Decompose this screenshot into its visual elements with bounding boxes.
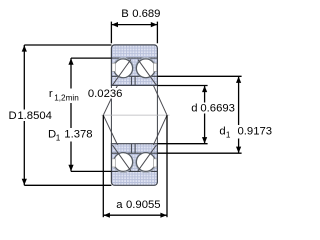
svg-text:D: D — [9, 110, 17, 122]
outer ring lower section (hatched) — [111, 144, 157, 186]
outer ring raceway shoulder line upper — [111, 57, 157, 59]
outer ring upper section (hatched) — [111, 45, 157, 86]
contact line upper right ball segment — [138, 59, 157, 85]
dimension a line — [103, 214, 167, 216]
svg-text:1: 1 — [226, 130, 231, 139]
raceway groove clearance upper right — [136, 58, 156, 78]
dimension d arrow bottom — [202, 137, 207, 143]
dimension d1 arrow top — [236, 77, 241, 83]
contact line lower right gap segment — [153, 115, 167, 145]
dimension d extension line top — [157, 85, 207, 87]
ball upper right — [136, 59, 155, 78]
raceway groove clearance upper left — [113, 58, 133, 78]
contact line lower right ball segment — [138, 145, 157, 171]
dimension D arrow bottom — [22, 179, 27, 185]
side face relief notch upper left — [112, 63, 115, 71]
dimension d line — [204, 86, 206, 144]
raceway groove clearance lower right — [136, 152, 156, 172]
dimension d1 arrow bottom — [236, 147, 241, 153]
dimension D extension line bottom — [24, 184, 111, 186]
label r 1,2min 0.0236 — [47, 89, 81, 104]
contact line lower left ball segment — [112, 145, 130, 171]
dimension d arrow top — [202, 86, 207, 92]
dimension B arrow left — [112, 22, 118, 27]
contact line upper right gap segment — [153, 85, 167, 115]
svg-text:B: B — [121, 8, 129, 20]
dimension B arrow right — [151, 22, 157, 27]
dimension B extension line left — [110, 22, 112, 44]
label D1 1.378 — [47, 128, 94, 142]
raceway groove clearance lower left — [113, 152, 133, 172]
svg-text:1: 1 — [56, 133, 61, 142]
svg-text:0.9055: 0.9055 — [126, 199, 161, 211]
dimension a arrow left — [104, 213, 110, 218]
label d1 0.9173 — [218, 125, 272, 139]
svg-text:0.6693: 0.6693 — [200, 103, 235, 115]
dimension B extension line right — [156, 22, 158, 44]
contact line upper left ball segment — [112, 59, 130, 85]
dimension D1 arrow top — [68, 58, 73, 64]
inner ring split line lower 2 — [134, 144, 136, 153]
inner ring split line upper 1 — [130, 77, 132, 86]
dimension D1 line — [70, 58, 72, 171]
dimension D extension line top — [24, 44, 111, 46]
side face relief notch upper right — [154, 63, 157, 71]
side face relief notch lower left — [112, 159, 115, 167]
svg-text:1,2min: 1,2min — [54, 93, 79, 102]
svg-text:0.0236: 0.0236 — [88, 88, 123, 100]
bore surface right edge line (gap) — [156, 85, 158, 143]
ball lower right — [136, 153, 155, 172]
svg-text:1.378: 1.378 — [64, 128, 92, 140]
inner ring shoulder line upper — [111, 75, 157, 77]
ball upper left — [114, 59, 133, 78]
dimension D1 extension line bottom — [71, 170, 111, 172]
dimension D line — [23, 45, 25, 185]
inner ring split line upper 2 — [134, 77, 136, 86]
ball lower left — [114, 153, 133, 172]
svg-text:r: r — [49, 88, 53, 100]
dimension a extension line right — [166, 115, 168, 217]
svg-text:a: a — [116, 199, 123, 211]
inner ring shoulder line lower — [111, 152, 157, 154]
dimension a extension line left — [102, 115, 104, 217]
svg-text:0.9173: 0.9173 — [238, 125, 273, 137]
dimension d extension line bottom — [157, 143, 207, 145]
svg-text:1.8504: 1.8504 — [17, 110, 52, 122]
label d 0.6693 — [190, 103, 236, 114]
label D 1.8504 — [7, 110, 57, 122]
lower section outline — [111, 144, 157, 186]
side face relief notch lower right — [154, 159, 157, 167]
bore surface left edge line (gap) — [110, 85, 112, 143]
outer ring raceway shoulder line lower — [111, 170, 157, 172]
contact line upper left gap segment — [103, 85, 117, 115]
dimension D1 extension line top — [71, 57, 111, 59]
dimension D arrow top — [22, 45, 27, 51]
dimension d1 extension line top — [157, 75, 241, 77]
inner ring split line lower 1 — [130, 144, 132, 153]
dimension d1 extension line bottom — [157, 152, 241, 154]
upper section outline — [111, 45, 157, 86]
dimension d1 line — [238, 76, 240, 153]
dimension D1 arrow bottom — [68, 165, 73, 171]
svg-text:d: d — [191, 103, 197, 115]
dimension B line — [111, 24, 157, 26]
contact line lower left gap segment — [103, 115, 117, 145]
svg-text:d: d — [219, 125, 225, 137]
svg-text:0.689: 0.689 — [132, 8, 160, 20]
dimension a arrow right — [160, 213, 166, 218]
bearing axis line — [102, 114, 170, 116]
